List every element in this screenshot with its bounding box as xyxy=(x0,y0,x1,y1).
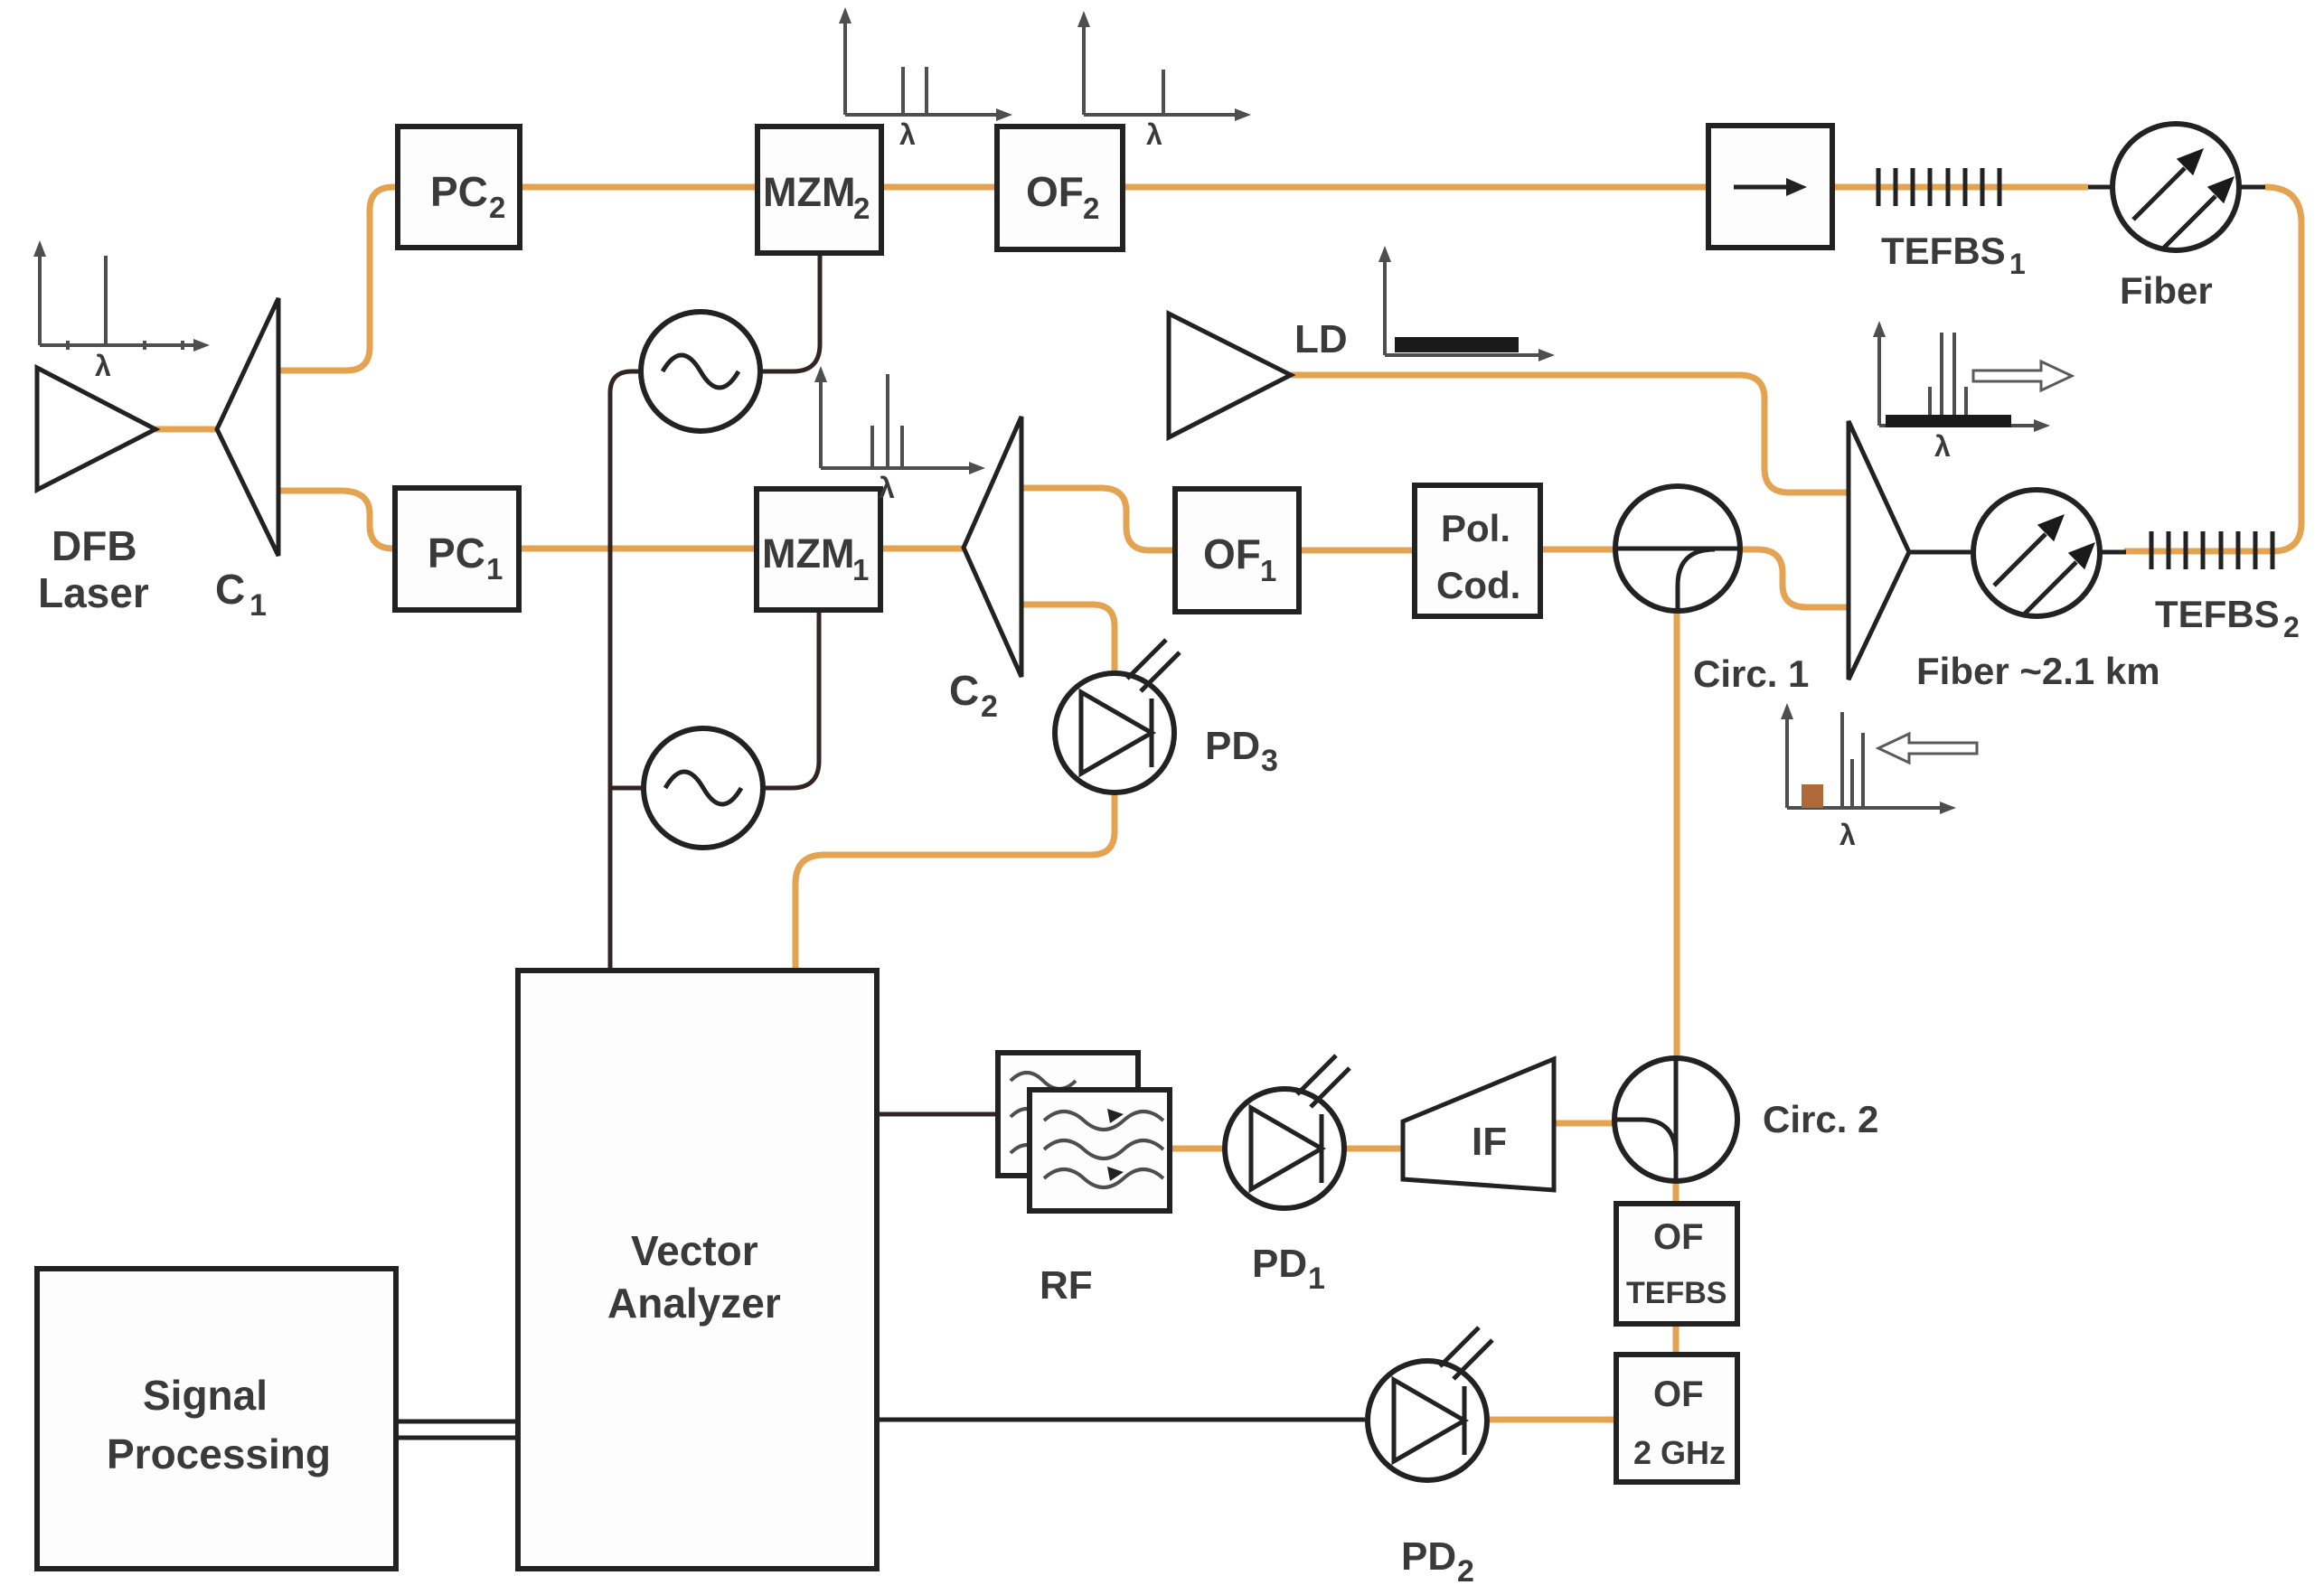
svg-text:1: 1 xyxy=(852,553,869,586)
svg-text:Vector: Vector xyxy=(631,1227,758,1274)
box MZM1 xyxy=(757,489,880,610)
svg-text:OF: OF xyxy=(1026,168,1084,215)
wire DFB laser to coupler C1 xyxy=(155,427,217,433)
svg-text:LD: LD xyxy=(1294,317,1348,361)
svg-text:RF: RF xyxy=(1040,1263,1093,1308)
spectrum icon above OF2 xyxy=(1077,11,1251,151)
DFB laser triangle xyxy=(37,368,155,490)
svg-text:Circ. 2: Circ. 2 xyxy=(1763,1098,1878,1140)
svg-text:DFB: DFB xyxy=(52,522,137,569)
wire PC1 to MZM1 xyxy=(519,546,757,552)
wire C2 bottom output through PD3 to Vector Analyzer xyxy=(795,605,1115,971)
wire Circ. 2 bottom to OF TEFBS xyxy=(1673,1181,1679,1202)
Vector Analyzer box xyxy=(518,971,877,1569)
label RF xyxy=(1040,1263,1093,1308)
wire OF 2GHz to PD2 xyxy=(1490,1417,1616,1423)
svg-text:TEFBS: TEFBS xyxy=(1881,230,2006,272)
svg-text:3: 3 xyxy=(1261,744,1278,778)
oscillator 2 circle xyxy=(644,728,763,848)
box Pol. Cod. xyxy=(1415,485,1540,616)
svg-text:C: C xyxy=(949,667,979,714)
svg-text:2: 2 xyxy=(853,192,870,225)
wire C1 top output to PC2 xyxy=(278,187,398,370)
Signal Processing box xyxy=(37,1269,396,1569)
wire oscillator 1 to MZM2 drive port xyxy=(760,254,820,371)
wire Circ. 1 to coupler C3 lower input xyxy=(1740,549,1849,607)
TEFBS2 grating xyxy=(2151,531,2272,569)
wire isolator to TEFBS1 grating xyxy=(1832,184,2088,191)
label Circ. 1 xyxy=(1693,652,1809,695)
wire RF oscillators common to Vector Analyzer xyxy=(610,371,641,971)
wire PC2 to MZM2 xyxy=(520,184,757,191)
svg-text:λ: λ xyxy=(879,472,895,504)
wire OF TEFBS to OF 2GHz xyxy=(1673,1324,1679,1355)
wire C1 bottom output to PC1 xyxy=(278,491,395,549)
wire MZM2 to OF2 xyxy=(881,184,997,191)
label TEFBS1 xyxy=(1881,230,2026,280)
svg-text:Processing: Processing xyxy=(107,1430,331,1477)
svg-text:2: 2 xyxy=(2283,611,2300,643)
label C1 xyxy=(215,566,267,623)
label LD xyxy=(1294,317,1348,361)
svg-text:OF: OF xyxy=(1203,530,1261,577)
label C2 xyxy=(949,667,998,724)
svg-text:2: 2 xyxy=(1457,1554,1474,1585)
wire PD1 to IF amplifier xyxy=(1346,1146,1403,1152)
svg-text:MZM: MZM xyxy=(763,169,855,215)
wire IF amplifier to Circ. 2 xyxy=(1554,1121,1614,1127)
wire Pol. Cod. to Circ. 1 xyxy=(1540,547,1615,553)
circulator Circ. 2 xyxy=(1614,1058,1737,1181)
svg-text:Fiber ~2.1 km: Fiber ~2.1 km xyxy=(1916,650,2160,692)
svg-text:Laser: Laser xyxy=(38,569,149,616)
wire Circ. 1 bottom to Circ. 2 top xyxy=(1674,610,1680,1058)
svg-text:Cod.: Cod. xyxy=(1436,564,1520,606)
coupler C3 xyxy=(1849,421,1909,680)
svg-text:λ: λ xyxy=(1146,118,1162,151)
photodiode PD2 xyxy=(1368,1327,1492,1480)
oscillator 1 circle xyxy=(641,312,760,431)
Fiber 2.1km spool xyxy=(1973,490,2100,616)
svg-text:λ: λ xyxy=(1839,819,1856,851)
svg-text:1: 1 xyxy=(2009,248,2026,280)
svg-text:2: 2 xyxy=(981,689,998,724)
label TEFBS2 xyxy=(2155,593,2300,643)
label Fiber 2.1km xyxy=(1916,650,2160,692)
box OF TEFBS xyxy=(1616,1204,1737,1324)
svg-text:λ: λ xyxy=(1934,430,1951,463)
svg-text:2: 2 xyxy=(489,191,505,224)
spectrum icon reflected at Circ. 1 xyxy=(1781,703,1977,851)
svg-text:1: 1 xyxy=(1308,1261,1325,1296)
svg-text:PD: PD xyxy=(1401,1534,1456,1579)
svg-text:PD: PD xyxy=(1252,1242,1307,1286)
photodiode PD1 xyxy=(1225,1055,1350,1208)
label Fiber xyxy=(2120,269,2213,312)
isolator box xyxy=(1708,126,1832,248)
circulator Circ. 1 xyxy=(1615,486,1740,611)
spectrum icon above MZM1 xyxy=(814,366,985,504)
coupler C2 xyxy=(964,417,1021,677)
wire oscillator 2 left terminal to common vertical xyxy=(610,786,644,791)
box PC2 xyxy=(398,127,520,248)
svg-text:OF: OF xyxy=(1653,1217,1704,1257)
svg-text:1: 1 xyxy=(1260,554,1276,587)
svg-text:λ: λ xyxy=(95,350,111,382)
svg-text:PC: PC xyxy=(428,530,485,577)
wire OF2 to isolator xyxy=(1123,184,1708,191)
wire C2 top output to OF1 xyxy=(1021,488,1175,550)
box OF 2GHz xyxy=(1616,1355,1737,1482)
RF filter block xyxy=(998,1053,1170,1211)
LD laser triangle xyxy=(1169,314,1291,437)
wire Vector Analyzer to RF filter xyxy=(877,1112,998,1117)
wire TEFBS1 grating to Fiber spool xyxy=(2088,185,2112,190)
label PD1 xyxy=(1252,1242,1325,1296)
svg-text:2 GHz: 2 GHz xyxy=(1633,1434,1726,1471)
spectrum icon above MZM2 xyxy=(839,7,1012,151)
bus Signal Processing to Vector Analyzer xyxy=(396,1421,518,1438)
svg-text:2: 2 xyxy=(1083,192,1099,225)
wire OF1 to Pol. Cod. xyxy=(1299,548,1415,554)
photodiode PD3 xyxy=(1055,640,1180,792)
svg-text:1: 1 xyxy=(249,588,267,623)
svg-text:TEFBS: TEFBS xyxy=(2155,593,2280,635)
wire oscillator 2 to MZM1 drive port xyxy=(763,610,819,788)
svg-text:IF: IF xyxy=(1472,1120,1507,1164)
box MZM2 xyxy=(757,127,881,253)
svg-text:Signal: Signal xyxy=(143,1372,268,1419)
svg-text:λ: λ xyxy=(899,118,916,151)
IF amplifier trapezoid xyxy=(1403,1059,1554,1190)
svg-text:Analyzer: Analyzer xyxy=(607,1280,781,1327)
svg-text:1: 1 xyxy=(486,552,503,586)
svg-text:Circ. 1: Circ. 1 xyxy=(1693,652,1809,695)
svg-text:Pol.: Pol. xyxy=(1441,507,1510,549)
TEFBS1 grating xyxy=(1878,168,1999,206)
wire PD2 to Vector Analyzer xyxy=(877,1418,1365,1422)
wire MZM1 to coupler C2 xyxy=(880,546,964,552)
label Circ. 2 xyxy=(1763,1098,1878,1140)
spectrum icon at C3 output xyxy=(1873,321,2072,463)
label PD2 xyxy=(1401,1534,1474,1585)
svg-text:Fiber: Fiber xyxy=(2120,269,2213,312)
box OF1 xyxy=(1175,489,1299,612)
wire Fiber spool right down to TEFBS2 xyxy=(2124,187,2301,551)
spectrum icon at DFB laser xyxy=(33,240,210,382)
wire C3 apex to Fiber 2.1km spool xyxy=(1909,550,1973,555)
spectrum icon at LD xyxy=(1378,246,1555,361)
svg-text:PD: PD xyxy=(1205,724,1260,768)
coupler C1 xyxy=(217,298,278,556)
svg-text:OF: OF xyxy=(1653,1374,1704,1414)
label PD3 xyxy=(1205,724,1278,778)
label DFB Laser xyxy=(38,522,149,616)
svg-text:TEFBS: TEFBS xyxy=(1626,1276,1727,1310)
Fiber spool 1 xyxy=(2112,124,2239,250)
wire RF filter to PD1 xyxy=(1170,1146,1223,1152)
box PC1 xyxy=(395,488,519,610)
svg-text:MZM: MZM xyxy=(762,530,854,577)
svg-text:C: C xyxy=(215,566,245,613)
svg-text:PC: PC xyxy=(430,168,488,215)
wire LD to coupler C3 upper input xyxy=(1291,375,1849,492)
wire Fiber 2.1km spool to TEFBS2 grating xyxy=(2100,550,2126,555)
box OF2 xyxy=(997,127,1123,249)
